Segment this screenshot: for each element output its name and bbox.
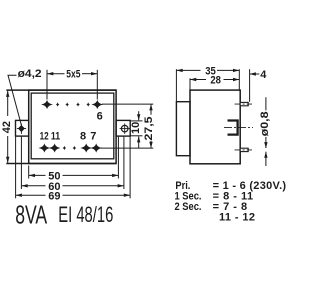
svg-text:5x5: 5x5 [66, 69, 80, 81]
left ear hole crosshair [17, 128, 26, 130]
pin 7 star [92, 145, 101, 152]
side body rect [190, 90, 240, 164]
svg-text:11 - 12: 11 - 12 [219, 212, 255, 224]
transformer inner rect (top view) [31, 93, 114, 159]
svg-text:8: 8 [80, 131, 86, 143]
dim 5x5 extension lines [47, 70, 97, 100]
unused pin holes bottom row (+) [63, 146, 77, 151]
unused pin holes top row (+) [56, 102, 90, 107]
svg-text:8VA: 8VA [15, 199, 47, 229]
dim 69 extension lines [15, 137, 17, 199]
left ear hole diamond [19, 126, 25, 132]
svg-text:ø4,2: ø4,2 [18, 68, 42, 80]
svg-text:EI 48/16: EI 48/16 [58, 202, 113, 227]
side flange rect [176, 102, 190, 156]
dim 10 ear edge extension lines [130, 120, 142, 122]
svg-text:4: 4 [260, 69, 267, 81]
side top pin [240, 102, 248, 105]
leader line for hole dia 4,2 [8, 75, 21, 125]
dim 4 extension line [249, 69, 251, 102]
svg-text:ø0,8: ø0,8 [259, 111, 271, 136]
svg-text:6: 6 [97, 110, 103, 122]
dim 10 outside arrows [138, 111, 140, 120]
bottom edge extension line left view [6, 163, 116, 165]
pin 6 star [93, 101, 102, 108]
pin 8 star [82, 145, 91, 152]
pin 11 star [50, 145, 59, 152]
side ear bracket [228, 121, 238, 135]
right ear hole crosshair [120, 128, 130, 130]
side bottom pin [240, 148, 248, 151]
side top pin centerline [235, 103, 252, 105]
left mounting ear [16, 120, 29, 136]
dim 28 line with arrows [190, 79, 206, 81]
right mounting ear [116, 120, 130, 136]
dim 42 line with arrows [7, 91, 9, 163]
dim 60 extension lines [20, 137, 22, 189]
svg-text:2 Sec.: 2 Sec. [175, 201, 202, 213]
dim 35 extension lines [175, 69, 177, 101]
dim 35 line with arrows [176, 69, 200, 71]
svg-text:10: 10 [130, 122, 142, 134]
dim 5x5 line with arrows [47, 73, 97, 75]
svg-text:27,5: 27,5 [143, 117, 155, 141]
dim 69 line with arrows [16, 194, 46, 196]
dim 27,5 line with arrows [150, 104, 152, 115]
svg-text:42: 42 [1, 121, 13, 133]
pin 12 star [40, 145, 49, 152]
dim 50 extension lines [28, 166, 30, 179]
dim 28 extension line [189, 78, 191, 89]
dim 50 line with arrows [29, 174, 46, 176]
pin6 row leader to 27,5 dim [102, 103, 154, 105]
side bottom pin centerline [235, 149, 252, 151]
pin7 row leader to 27,5 dim [101, 147, 154, 149]
svg-text:28: 28 [210, 75, 221, 87]
svg-text:12: 12 [40, 131, 49, 143]
svg-text:7: 7 [90, 131, 96, 143]
side ear centerline [224, 127, 253, 129]
dim 0,8 line and arrows [265, 97, 267, 110]
top edge extension line left view [6, 89, 116, 91]
dim 60 line with arrows [21, 185, 45, 187]
transformer outer body rect (top view) [29, 90, 116, 163]
svg-text:69: 69 [48, 191, 60, 203]
svg-text:11: 11 [51, 131, 60, 143]
dim 4 arrow [250, 73, 260, 75]
pin 1 star [43, 101, 52, 108]
right ear hole circle [121, 125, 128, 132]
